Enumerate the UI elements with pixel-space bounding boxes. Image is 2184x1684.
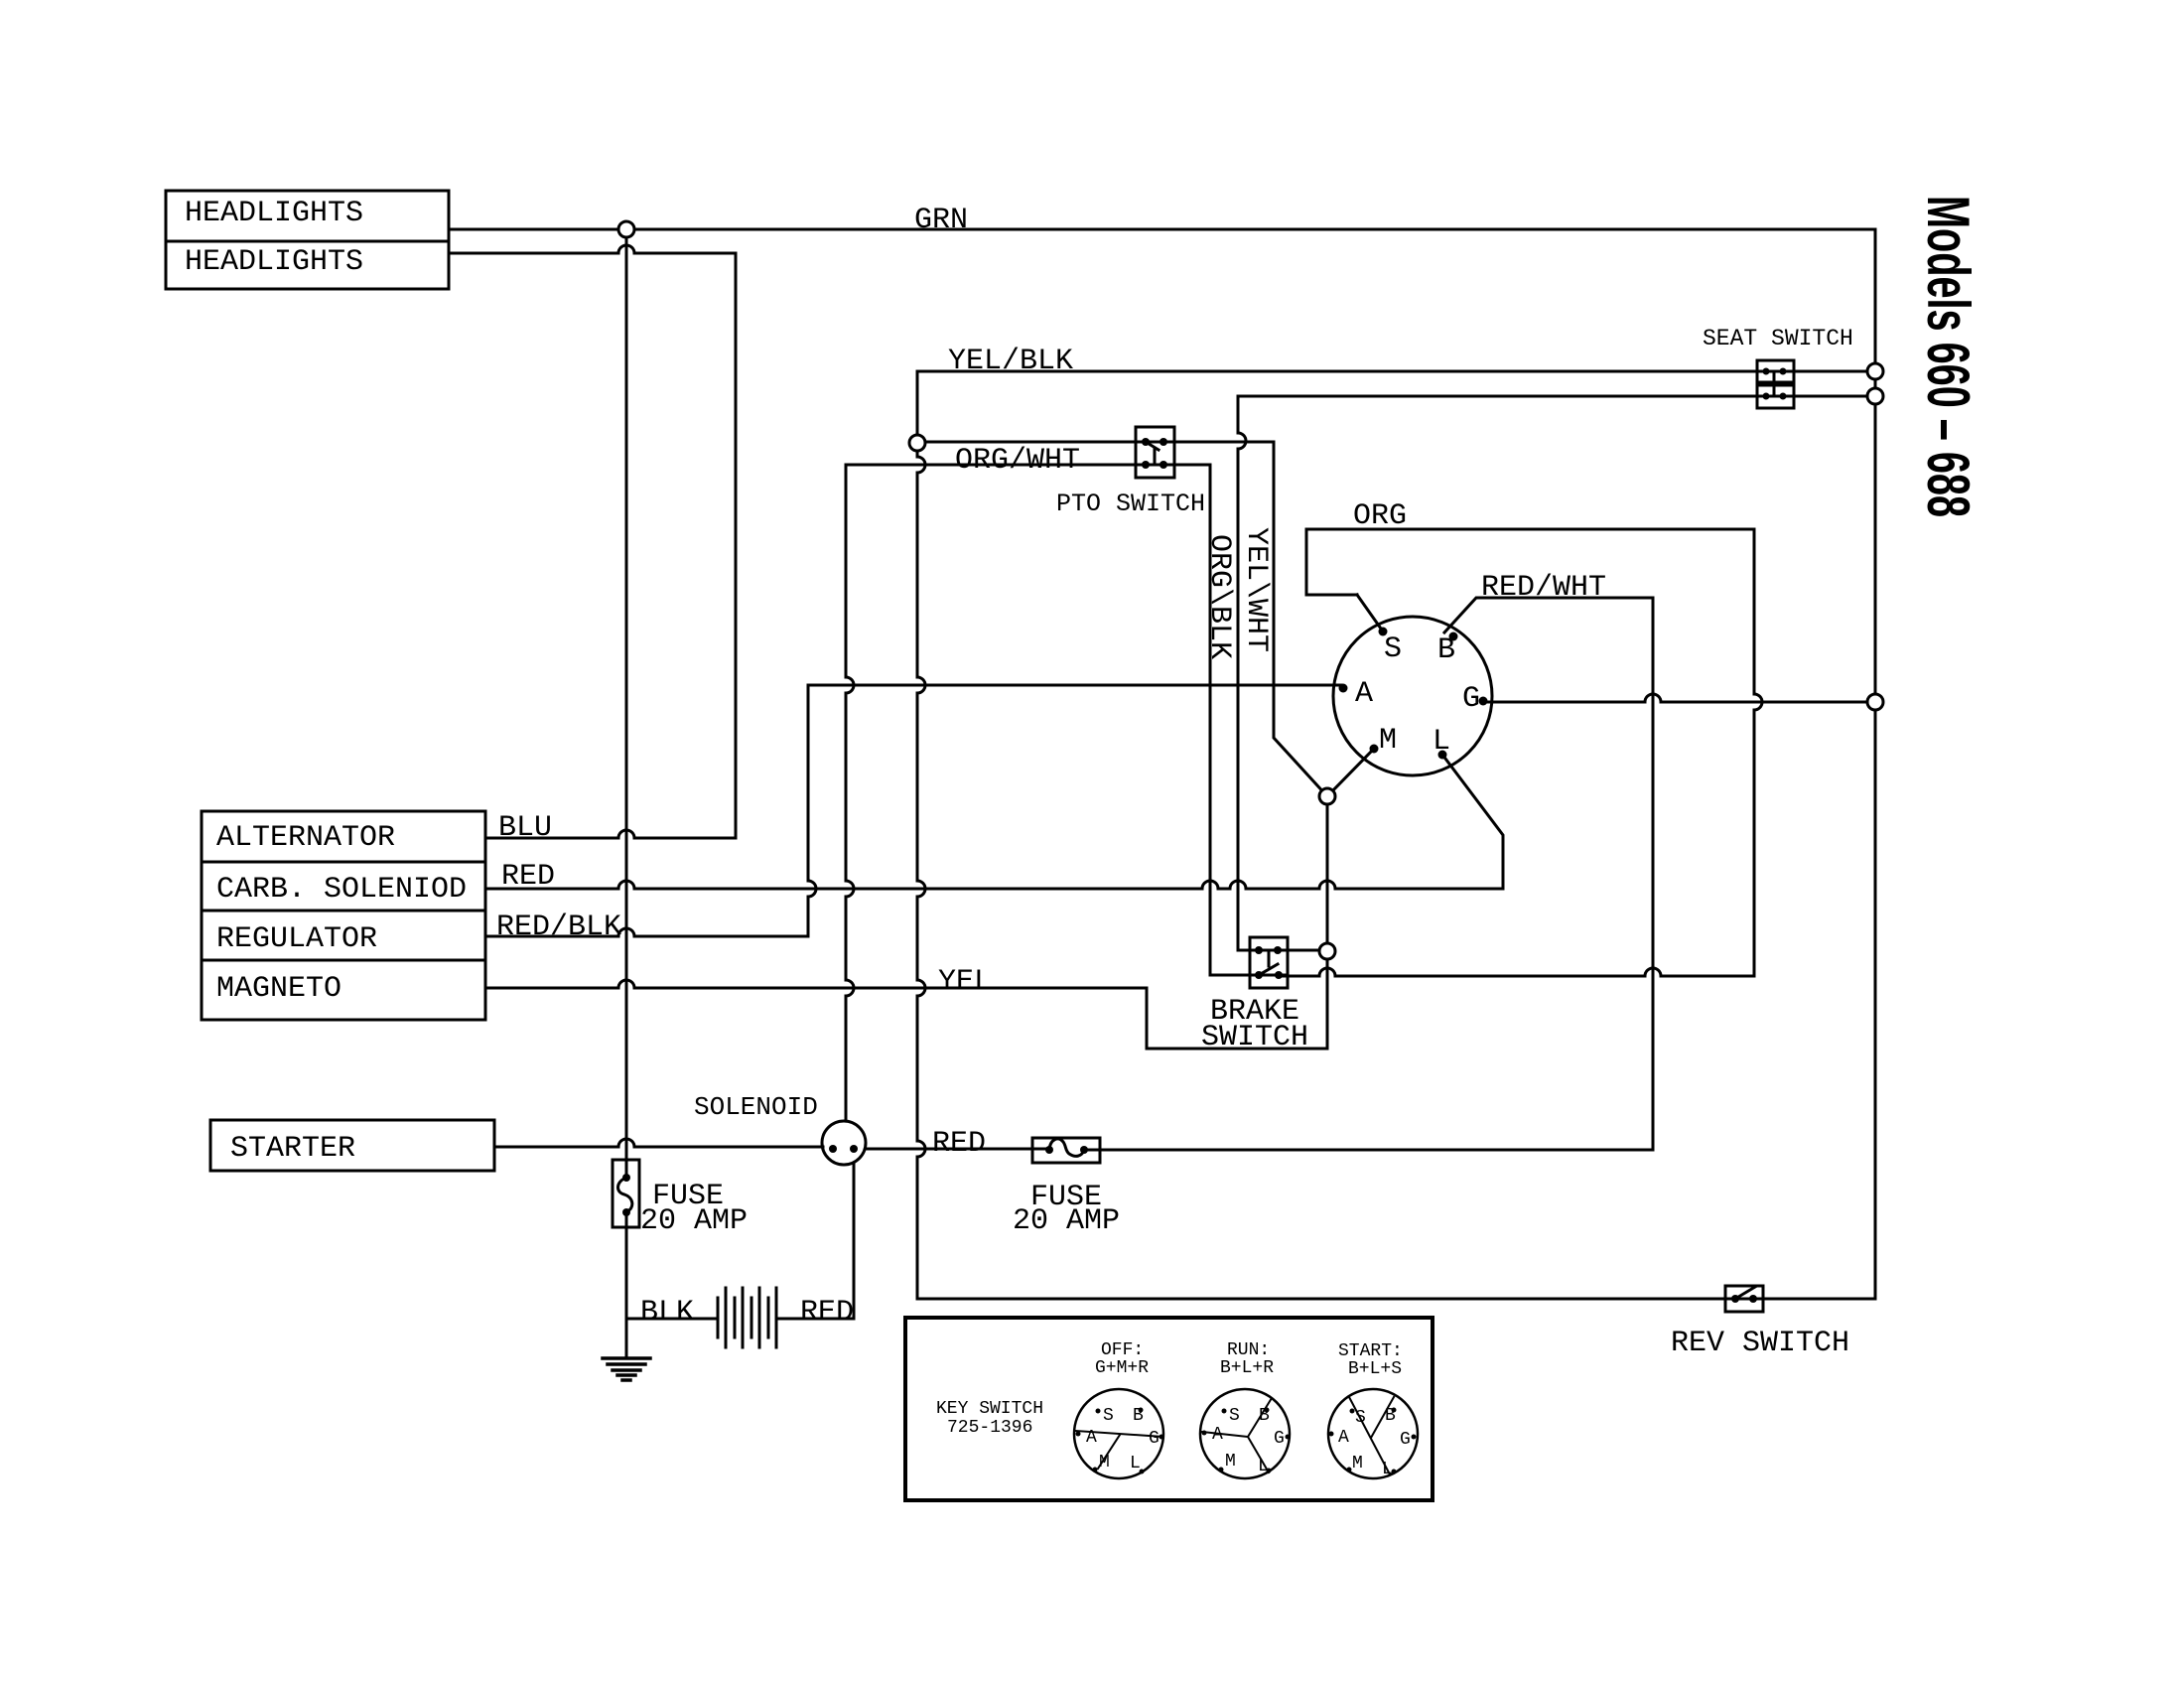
node circle brake junction: [1319, 943, 1335, 959]
svg-text:ORG\BLK: ORG\BLK: [1202, 534, 1236, 659]
wire RED from carb. soleniod to L terminal: [485, 755, 1503, 889]
svg-text:G+M+R: G+M+R: [1095, 1358, 1149, 1378]
node circle ORG/WHT junction: [909, 435, 925, 451]
node circle headlight junction: [618, 221, 634, 237]
wire solenoid to fuse 2 (RED): [866, 1148, 1049, 1151]
legend START contacts: [1349, 1397, 1394, 1474]
brake switch dots: [1255, 946, 1283, 979]
wire REV switch line: [917, 1298, 1875, 1301]
wire YEL/BLK: node up and right to seat switch: [917, 371, 1875, 1299]
svg-text:ORG: ORG: [1353, 499, 1407, 533]
svg-text:L: L: [1433, 725, 1450, 759]
svg-text:B+L+R: B+L+R: [1220, 1358, 1274, 1378]
svg-text:M: M: [1099, 1453, 1110, 1473]
key switch terminal dots: [1339, 628, 1488, 760]
svg-text:HEADLIGHTS: HEADLIGHTS: [185, 197, 363, 230]
REV switch lever: [1735, 1287, 1755, 1299]
node circle G rail: [1867, 694, 1883, 710]
fuse 1 dots: [622, 1174, 630, 1216]
fuse 2 box: [1032, 1138, 1100, 1163]
svg-text:CARB. SOLENIOD: CARB. SOLENIOD: [216, 873, 467, 907]
svg-text:S: S: [1103, 1406, 1114, 1426]
wire ORG diagonal to S: [1357, 595, 1381, 629]
svg-text:BLU: BLU: [498, 811, 552, 845]
wire ORG: key switch S up to top, right and down to brake switch bottom-right: [1279, 529, 1762, 976]
seat switch link: [1773, 371, 1776, 396]
node circle M junction: [1319, 788, 1335, 804]
PTO switch dots: [1142, 438, 1167, 469]
legend circle RUN: [1200, 1389, 1290, 1478]
svg-text:RUN:: RUN:: [1227, 1340, 1270, 1360]
svg-text:L: L: [1258, 1457, 1269, 1476]
brake switch lever: [1259, 951, 1278, 975]
svg-text:SWITCH: SWITCH: [1201, 1021, 1308, 1054]
svg-text:S: S: [1384, 632, 1402, 666]
svg-text:RED/BLK: RED/BLK: [496, 911, 621, 944]
svg-text:MAGNETO: MAGNETO: [216, 972, 341, 1006]
REV switch box: [1725, 1286, 1763, 1312]
svg-text:L: L: [1382, 1460, 1393, 1479]
legend START letters: [1338, 1406, 1411, 1479]
PTO switch box: [1136, 427, 1174, 478]
node circle seat upper: [1867, 363, 1883, 379]
wire M node to brake node: [1326, 796, 1329, 951]
solenoid contact dots: [829, 1145, 858, 1153]
svg-text:REGULATOR: REGULATOR: [216, 922, 377, 956]
svg-text:G: G: [1462, 682, 1480, 716]
ground symbol: [603, 1358, 650, 1380]
seat switch box lower: [1757, 385, 1794, 408]
svg-text:HEADLIGHTS: HEADLIGHTS: [185, 245, 363, 279]
svg-text:A: A: [1355, 677, 1373, 711]
svg-text:RED: RED: [932, 1127, 986, 1161]
component stack box (alternator / carb soleniod / regulator / magneto): [202, 811, 485, 1020]
svg-text:SEAT SWITCH: SEAT SWITCH: [1703, 326, 1853, 351]
svg-text:REV SWITCH: REV SWITCH: [1671, 1327, 1849, 1360]
svg-text:ORG/WHT: ORG/WHT: [955, 444, 1080, 478]
svg-text:Models 660 – 688: Models 660 – 688: [1915, 196, 1981, 517]
wire YEL from magneto to brake switch node: [485, 951, 1327, 1049]
seat switch dots: [1763, 368, 1787, 400]
legend RUN contacts: [1202, 1398, 1272, 1473]
legend OFF contacts: [1075, 1431, 1163, 1469]
svg-text:SOLENOID: SOLENOID: [694, 1092, 818, 1122]
fuse 2 element: [1049, 1139, 1084, 1156]
fuse 2 dots: [1045, 1146, 1088, 1154]
wire solenoid bottom to battery RED: [776, 1165, 854, 1319]
wire left ground rail: node to fuse 1 to battery BLK and ground: [625, 229, 628, 1358]
svg-text:BLK: BLK: [640, 1296, 694, 1330]
battery plates: [718, 1288, 776, 1347]
svg-text:M: M: [1225, 1452, 1236, 1472]
svg-text:20 AMP: 20 AMP: [640, 1204, 748, 1238]
svg-text:STARTER: STARTER: [230, 1132, 355, 1166]
wire RED/WHT: fuse 2 to key switch B: [1084, 598, 1653, 1150]
svg-text:YEL: YEL: [938, 965, 992, 999]
wire ORG/BLK: PTO bottom to brake switch bottom-left: [846, 465, 1288, 975]
svg-text:YEL/BLK: YEL/BLK: [948, 345, 1073, 378]
svg-text:B+L+S: B+L+S: [1348, 1359, 1402, 1379]
headlights box 2: [166, 241, 449, 289]
PTO switch lever: [1146, 442, 1159, 465]
REV switch dots: [1731, 1295, 1757, 1303]
svg-text:ALTERNATOR: ALTERNATOR: [216, 821, 395, 855]
svg-text:G: G: [1274, 1429, 1285, 1449]
svg-text:S: S: [1355, 1408, 1366, 1428]
brake switch box: [1250, 937, 1288, 988]
svg-text:START:: START:: [1338, 1341, 1403, 1361]
wire RED/BLK from regulator to key switch A: [485, 685, 1341, 936]
svg-text:KEY SWITCH: KEY SWITCH: [936, 1399, 1043, 1419]
wire seat switch lower line down to brake switch top-left: [1238, 396, 1875, 950]
svg-text:G: G: [1400, 1430, 1411, 1450]
legend RUN letters: [1212, 1406, 1285, 1476]
brake switch row lines: [1250, 950, 1288, 975]
svg-text:RED/WHT: RED/WHT: [1481, 571, 1606, 605]
svg-text:A: A: [1086, 1428, 1097, 1448]
svg-text:20 AMP: 20 AMP: [1013, 1204, 1120, 1238]
svg-text:G: G: [1149, 1429, 1160, 1449]
key switch circle: [1333, 617, 1492, 775]
svg-text:YEL\WHT: YEL\WHT: [1239, 527, 1273, 652]
fuse 1 element: [617, 1178, 631, 1212]
node circle seat lower: [1867, 388, 1883, 404]
svg-text:GRN: GRN: [914, 204, 968, 237]
svg-text:B: B: [1437, 633, 1455, 667]
svg-text:A: A: [1338, 1428, 1349, 1448]
starter box: [210, 1120, 494, 1171]
legend circle OFF: [1074, 1389, 1163, 1478]
legend terminal dots: [1076, 1408, 1417, 1474]
svg-text:A: A: [1212, 1425, 1223, 1445]
svg-text:M: M: [1379, 724, 1397, 758]
fuse 1 box: [613, 1160, 639, 1227]
svg-text:RED: RED: [501, 860, 555, 894]
svg-text:PTO SWITCH: PTO SWITCH: [1056, 490, 1205, 518]
svg-text:OFF:: OFF:: [1101, 1340, 1144, 1360]
wire ORG/WHT: node through PTO switch, down and to M node: [925, 442, 1327, 796]
wire ORG/WHT PTO bottom branch down to solenoid top: [846, 465, 854, 1121]
wire M diagonal to M node: [1327, 749, 1374, 796]
seat switch box upper: [1757, 360, 1794, 382]
wire BLU from alternator: [485, 830, 736, 838]
legend OFF letters: [1086, 1406, 1160, 1473]
wire STARTER to solenoid: [494, 1139, 823, 1147]
wire battery BLK to ground rail: [626, 1318, 718, 1321]
wire GRN: headlight 1 to right rail, down right side to REV switch corner: [449, 229, 1875, 1299]
svg-text:L: L: [1130, 1454, 1141, 1473]
svg-text:RED: RED: [800, 1296, 854, 1330]
wire headlight 2 to vertical, down to BLU corner: [449, 245, 736, 838]
solenoid circle: [822, 1121, 866, 1165]
key switch legend table box: [905, 1318, 1433, 1500]
headlights box 1: [166, 191, 449, 241]
legend circle START: [1328, 1389, 1418, 1478]
svg-text:725-1396: 725-1396: [947, 1418, 1032, 1438]
svg-text:M: M: [1352, 1454, 1363, 1473]
wire G to right rail: [1485, 694, 1875, 702]
svg-text:S: S: [1229, 1406, 1240, 1426]
